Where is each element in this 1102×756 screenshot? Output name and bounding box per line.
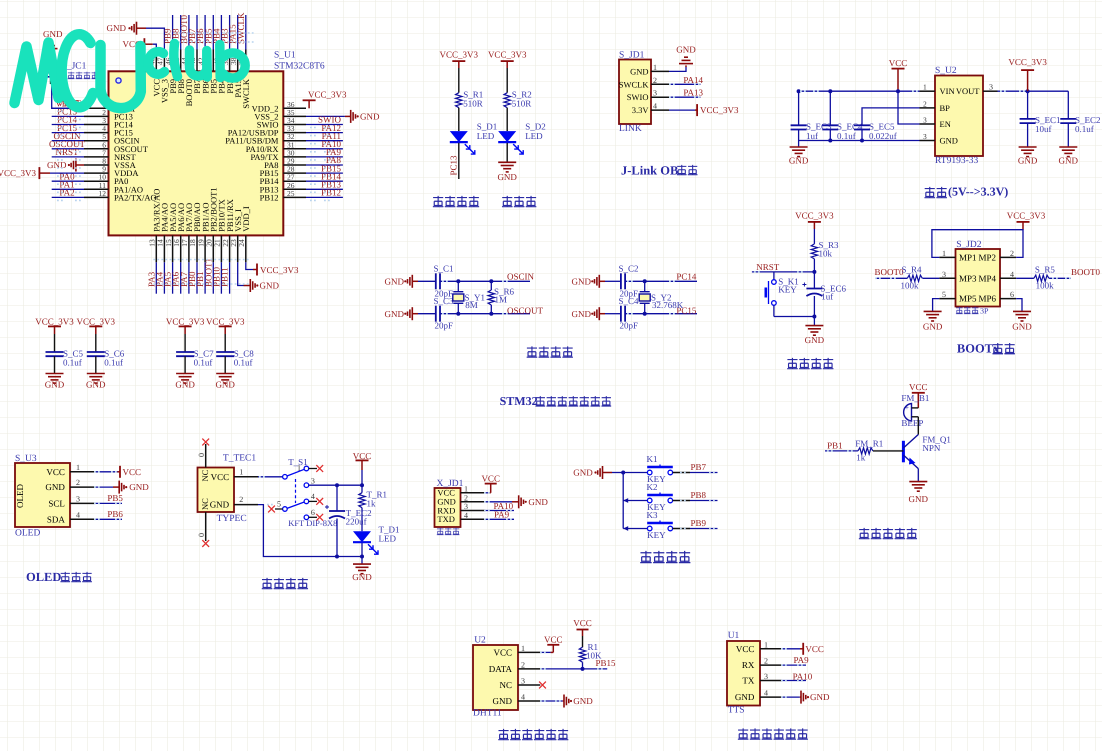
svg-text:NC: NC bbox=[499, 680, 512, 690]
svg-text:S_C1: S_C1 bbox=[434, 263, 454, 273]
svg-text:510R: 510R bbox=[463, 99, 483, 109]
svg-text:OLED: OLED bbox=[26, 570, 61, 584]
svg-text:100k: 100k bbox=[901, 280, 920, 290]
wire X_JD1 GND to ground bbox=[485, 501, 512, 503]
svg-text:TYPEC: TYPEC bbox=[217, 514, 247, 524]
U1 top pin 46 PB9 bbox=[172, 50, 174, 72]
svg-text:2: 2 bbox=[239, 495, 243, 504]
svg-text:GND: GND bbox=[385, 276, 405, 286]
transistor FM_Q1 NPN bbox=[902, 441, 905, 463]
svg-text:OLED: OLED bbox=[15, 484, 25, 508]
svg-text:GND: GND bbox=[573, 468, 593, 478]
svg-text:VCC_3V3: VCC_3V3 bbox=[700, 105, 739, 115]
svg-text:PB12: PB12 bbox=[321, 188, 341, 198]
U1 left pin 5 OSCIN bbox=[84, 140, 109, 142]
svg-text:25: 25 bbox=[287, 189, 295, 198]
ground below power circuit bbox=[361, 557, 363, 565]
S_JD1 pin 1 GND bbox=[651, 70, 669, 72]
svg-text:1uf: 1uf bbox=[821, 291, 833, 301]
svg-text:MP3: MP3 bbox=[959, 273, 977, 283]
U1 top pin 44 BOOT0 bbox=[188, 50, 190, 72]
svg-text:PC13: PC13 bbox=[449, 155, 459, 176]
svg-text:3.3V: 3.3V bbox=[632, 105, 650, 115]
U1 bottom pin 17 PA7/AO bbox=[188, 235, 190, 262]
S_JD1 pin 4 3.3V bbox=[651, 109, 669, 111]
svg-text:GND: GND bbox=[210, 500, 230, 510]
U1 left pin 1 VBAT bbox=[84, 107, 109, 109]
svg-text:PB8: PB8 bbox=[691, 490, 707, 500]
svg-text:3P: 3P bbox=[980, 307, 989, 316]
svg-text:GND: GND bbox=[260, 281, 280, 291]
led T_D1 bbox=[361, 508, 363, 532]
svg-text:S_U2: S_U2 bbox=[935, 66, 957, 76]
svg-text:BOOT0: BOOT0 bbox=[1071, 267, 1100, 277]
wire net PA11 to U1 pin 32 bbox=[306, 140, 343, 142]
wire net PA13 S_JD1 pin3 bbox=[669, 96, 700, 98]
U1 right pin 25 PB12 bbox=[283, 196, 306, 198]
svg-text:GND: GND bbox=[360, 111, 380, 121]
svg-text:2: 2 bbox=[464, 493, 468, 502]
U1 left pin 9 VDDA bbox=[84, 172, 109, 174]
wire 3.3V S_JD1 pin4 to VCC_3V3 bbox=[669, 109, 695, 111]
capacitor S_EC5 0.022uf bbox=[854, 124, 870, 126]
U1 bottom pin 16 PA6/AO bbox=[180, 235, 182, 262]
wire net PA5 from U1 pin 15 bbox=[172, 262, 174, 293]
key K2 bbox=[623, 500, 647, 502]
S_U3 pin 1 VCC bbox=[70, 471, 94, 473]
capacitor S_C1 20pF bbox=[418, 280, 436, 282]
U1 top pin 42 PB6 bbox=[204, 50, 206, 72]
svg-text:VCC: VCC bbox=[805, 644, 824, 654]
svg-text:GND: GND bbox=[572, 276, 592, 286]
svg-text:PB12: PB12 bbox=[260, 192, 279, 202]
U1 top pin 39 PB3 bbox=[229, 50, 231, 72]
svg-text:VIN: VIN bbox=[940, 86, 955, 96]
U1 bottom pin 14 PA4/AO bbox=[163, 235, 165, 262]
wire net PA4 from U1 pin 14 bbox=[163, 262, 165, 293]
svg-text:NC: NC bbox=[200, 469, 210, 481]
svg-text:SWIO: SWIO bbox=[627, 92, 649, 102]
U1 top pin 40 PB4 bbox=[220, 50, 222, 72]
wire EN to VIN rail bbox=[898, 91, 920, 124]
TTS U1 pin 4 GND bbox=[760, 696, 782, 698]
svg-text:0.1uf: 0.1uf bbox=[63, 358, 82, 368]
U1 left pin 3 PC14 bbox=[84, 124, 109, 126]
S_U2 left pin 3 GND bbox=[920, 140, 936, 142]
T_TEC1 bottom pin 0 no-connect bbox=[205, 512, 207, 541]
svg-text:0.1uf: 0.1uf bbox=[837, 131, 856, 141]
svg-text:2: 2 bbox=[76, 478, 80, 487]
svg-text:GND: GND bbox=[86, 379, 106, 389]
T_TEC1 pin 1 VCC bbox=[234, 476, 258, 478]
svg-text:10uf: 10uf bbox=[1035, 124, 1052, 134]
svg-text:LINK: LINK bbox=[619, 124, 642, 134]
svg-text:U1: U1 bbox=[728, 631, 740, 641]
svg-text:1: 1 bbox=[942, 249, 946, 258]
wire PC14 bbox=[625, 280, 697, 282]
key K1 bbox=[623, 472, 647, 474]
wire X_JD1 VCC to power bbox=[485, 492, 488, 494]
svg-text:3: 3 bbox=[942, 270, 946, 279]
svg-text:GND: GND bbox=[385, 309, 405, 319]
led S_D2 bbox=[506, 108, 508, 131]
X_JD1 pin 1 VCC bbox=[461, 492, 486, 494]
wire DATA net PB15 bbox=[540, 668, 607, 670]
wire net PB1 to base bbox=[825, 450, 858, 452]
svg-text:3: 3 bbox=[989, 83, 993, 92]
svg-text:S_JD2: S_JD2 bbox=[956, 240, 982, 250]
svg-text:LED: LED bbox=[379, 534, 397, 544]
S_JD2 pin stubs bbox=[939, 256, 955, 258]
resistor S_R1 510R bbox=[458, 68, 460, 93]
svg-text:510R: 510R bbox=[512, 99, 532, 109]
svg-text:20pF: 20pF bbox=[435, 321, 454, 331]
svg-text:1k: 1k bbox=[856, 452, 866, 462]
svg-text:VCC: VCC bbox=[544, 634, 563, 644]
svg-text:PB7: PB7 bbox=[691, 462, 707, 472]
wire BP to S_EC5 bbox=[862, 108, 920, 125]
wire net PA8 to U1 pin 29 bbox=[306, 164, 343, 166]
svg-text:TX: TX bbox=[742, 676, 754, 686]
svg-text:DATA: DATA bbox=[489, 664, 513, 674]
svg-text:VDD_I: VDD_I bbox=[241, 206, 251, 232]
wire net PB3 to U1 pin 39 bbox=[229, 15, 231, 50]
svg-text:GND: GND bbox=[175, 379, 195, 389]
ground at U1 pin35 VSS_2 bbox=[306, 115, 345, 117]
svg-text:VCC: VCC bbox=[573, 618, 592, 628]
svg-text:MP2: MP2 bbox=[978, 252, 996, 262]
wire net PA9 to U1 pin 30 bbox=[306, 156, 343, 158]
wire net PA2 to U1 pin 12 bbox=[52, 196, 84, 198]
U1 bottom pin 20 PB2/BOOT1 bbox=[212, 235, 214, 262]
U1 right pin 27 PB14 bbox=[283, 180, 306, 182]
resistor S_R3 10k bbox=[813, 229, 815, 244]
svg-text:12: 12 bbox=[99, 189, 107, 198]
U2 pin3 NC no-connect bbox=[539, 682, 546, 689]
svg-text:MP4: MP4 bbox=[978, 273, 996, 283]
svg-text:VCC_3V3: VCC_3V3 bbox=[1007, 211, 1046, 221]
S_U3 pin 2 GND bbox=[70, 486, 94, 488]
S_U2 left pin 1 VIN bbox=[920, 90, 936, 92]
U1 top pin 47 VSS_3 bbox=[163, 50, 165, 72]
capacitor S_EC6 1uf bbox=[813, 272, 815, 289]
svg-text:STM32: STM32 bbox=[500, 394, 538, 408]
svg-text:OSCOUT: OSCOUT bbox=[507, 306, 544, 316]
wire net PB9 to U1 pin 46 bbox=[172, 15, 174, 50]
wire S_JD2 pin5 to ground bbox=[933, 299, 940, 312]
S_JD1 pin 3 SWIO bbox=[651, 96, 669, 98]
resistor S_R6 1M bbox=[490, 281, 492, 290]
wire S_K1 to ground node bbox=[774, 316, 815, 318]
svg-text:1k: 1k bbox=[367, 499, 377, 509]
svg-text:4: 4 bbox=[76, 510, 80, 519]
svg-text:FM_R1: FM_R1 bbox=[855, 439, 883, 449]
wire net PB5 to U1 pin 41 bbox=[212, 15, 214, 50]
U1 left pin 6 OSCOUT bbox=[84, 148, 109, 150]
svg-text:5: 5 bbox=[277, 500, 281, 509]
U1 left pin 10 PA0 bbox=[84, 180, 109, 182]
U1 right pin 31 PA10/RX bbox=[283, 148, 306, 150]
wire net PB11 from U1 pin 22 bbox=[229, 262, 231, 293]
svg-text:0.1uf: 0.1uf bbox=[234, 358, 253, 368]
TTS U1 pin 1 VCC bbox=[760, 648, 782, 650]
wire net PC13 to U1 pin 2 bbox=[52, 115, 84, 117]
svg-text:NC: NC bbox=[200, 498, 210, 510]
U1 bottom pin 19 PB1/AO bbox=[204, 235, 206, 262]
svg-text:1: 1 bbox=[464, 484, 468, 493]
wire VIN rail bbox=[799, 90, 920, 92]
capacitor T_EC2 220uf bbox=[336, 485, 338, 511]
svg-text:VCC: VCC bbox=[211, 472, 230, 482]
svg-text:S_R4: S_R4 bbox=[902, 265, 923, 275]
wire net PC14 to U1 pin 3 bbox=[52, 124, 84, 126]
wire TTS VCC to power bbox=[782, 648, 800, 650]
svg-text:VCC_3V3: VCC_3V3 bbox=[0, 168, 36, 178]
svg-text:1: 1 bbox=[653, 63, 657, 72]
caption crystal circuit bbox=[527, 346, 538, 357]
svg-text:0: 0 bbox=[197, 533, 206, 537]
svg-text:U2: U2 bbox=[474, 636, 486, 646]
wire net PA7 from U1 pin 17 bbox=[188, 262, 190, 293]
svg-text:1: 1 bbox=[521, 644, 525, 653]
svg-text:S_D1: S_D1 bbox=[477, 121, 498, 131]
svg-text:VCC: VCC bbox=[889, 58, 908, 68]
capacitor S_C3 20pF bbox=[418, 313, 436, 315]
svg-text:VCC_3V3: VCC_3V3 bbox=[795, 211, 834, 221]
svg-text:TXD: TXD bbox=[437, 514, 454, 524]
svg-text:4: 4 bbox=[1010, 270, 1014, 279]
svg-text:S_U1: S_U1 bbox=[274, 51, 296, 61]
svg-text:GND: GND bbox=[735, 692, 755, 702]
wire net PB4 to U1 pin 40 bbox=[220, 15, 222, 50]
svg-text:1uf: 1uf bbox=[806, 131, 818, 141]
svg-text:GND: GND bbox=[129, 482, 149, 492]
S_U2 right pin 3 VOUT bbox=[983, 90, 998, 92]
X_JD1 pin 3 RXD bbox=[461, 510, 486, 512]
svg-text:GND: GND bbox=[47, 160, 67, 170]
svg-text:32.768K: 32.768K bbox=[652, 300, 684, 310]
svg-text:0.022uf: 0.022uf bbox=[869, 131, 897, 141]
svg-text:NRST: NRST bbox=[756, 262, 780, 272]
svg-text:J-Link OB: J-Link OB bbox=[621, 164, 678, 178]
wire key common rail bbox=[612, 472, 623, 474]
svg-text:3: 3 bbox=[923, 132, 927, 141]
svg-text:1: 1 bbox=[239, 467, 243, 476]
wire T_TEC1 GND to bottom rail bbox=[258, 505, 362, 557]
capacitor S_C4 20pF bbox=[605, 313, 621, 315]
wire net PA10 to U1 pin 31 bbox=[306, 148, 343, 150]
svg-text:10K: 10K bbox=[586, 651, 602, 661]
svg-text:VCC_3V3: VCC_3V3 bbox=[166, 316, 205, 326]
wire net PB6 SDA bbox=[94, 518, 122, 520]
wire net PB15 to U1 pin 28 bbox=[306, 172, 343, 174]
wire U2 VCC to power bbox=[540, 651, 550, 653]
wire net PB7 to U1 pin 43 bbox=[196, 15, 198, 50]
wire net PB9 bbox=[673, 528, 690, 530]
connector T_TEC1 TYPEC bbox=[198, 468, 235, 513]
svg-text:VCC: VCC bbox=[123, 467, 142, 477]
S_U2 left pin 3 EN bbox=[920, 123, 936, 125]
display header S_U3 OLED bbox=[15, 463, 70, 527]
U1 right pin 30 PA9/TX bbox=[283, 156, 306, 158]
ground at U1 pin8 VSSA bbox=[76, 164, 84, 166]
U1 bottom pin 24 VDD_I bbox=[245, 235, 247, 262]
wire net PB12 to U1 pin 25 bbox=[306, 196, 343, 198]
capacitor S_C2 20pF bbox=[605, 280, 621, 282]
wire S_U2 GND rail bbox=[799, 140, 920, 142]
resistor R1 10K pull-up bbox=[582, 636, 584, 647]
wire net PA1 to U1 pin 11 bbox=[52, 188, 84, 190]
svg-text:GND: GND bbox=[493, 696, 513, 706]
svg-text:NPN: NPN bbox=[922, 443, 941, 453]
label download port bbox=[437, 528, 444, 535]
svg-text:MP6: MP6 bbox=[978, 294, 996, 304]
svg-text:RX: RX bbox=[742, 660, 755, 670]
wire net PA9 RX bbox=[782, 664, 806, 666]
battery D_JC1 coin cell bbox=[50, 49, 52, 64]
U1 right pin 28 PB15 bbox=[283, 172, 306, 174]
S_U3 pin 3 SCL bbox=[70, 502, 94, 504]
svg-text:GND: GND bbox=[573, 696, 593, 706]
svg-text:0.1uf: 0.1uf bbox=[1075, 124, 1094, 134]
wire net PB13 to U1 pin 26 bbox=[306, 188, 343, 190]
wire net PA10 TX bbox=[782, 680, 806, 682]
svg-text:100k: 100k bbox=[1036, 280, 1055, 290]
ground below S_D2 bbox=[506, 143, 508, 162]
ground below S_EC3 bbox=[798, 141, 800, 148]
logo MCUclub bbox=[15, 34, 141, 108]
U1 top pin 45 PB8 bbox=[180, 50, 182, 72]
svg-text:VCC: VCC bbox=[46, 467, 65, 477]
svg-text:OSCIN: OSCIN bbox=[507, 272, 535, 282]
svg-text:3: 3 bbox=[521, 677, 525, 686]
capacitor S_EC1 10uf bbox=[1027, 91, 1029, 119]
svg-text:1: 1 bbox=[764, 640, 768, 649]
U1 bottom pin 15 PA5/AO bbox=[172, 235, 174, 262]
svg-text:VOUT: VOUT bbox=[956, 86, 980, 96]
caption temperature humidity sensor bbox=[498, 729, 509, 740]
svg-text:10k: 10k bbox=[819, 248, 833, 258]
svg-text:6: 6 bbox=[311, 508, 315, 517]
svg-text:4: 4 bbox=[764, 689, 768, 698]
svg-text:S_C2: S_C2 bbox=[619, 263, 639, 273]
key S_K1 reset button bbox=[773, 272, 775, 280]
svg-text:SDA: SDA bbox=[47, 514, 66, 524]
svg-text:GND: GND bbox=[215, 379, 235, 389]
wire VBAT battery to U1 pin1 bbox=[52, 84, 84, 108]
caption key circuit bbox=[640, 551, 652, 563]
wire net PA0 to U1 pin 10 bbox=[52, 180, 84, 182]
svg-text:6: 6 bbox=[1010, 290, 1014, 299]
svg-text:VCC_3V3: VCC_3V3 bbox=[1008, 57, 1047, 67]
resistor S_R5 100k bbox=[1034, 275, 1049, 281]
wire OSCIN bbox=[440, 280, 530, 282]
wire net BOOT0 to U1 pin 44 bbox=[188, 15, 190, 50]
connector X_JD1 download port bbox=[435, 488, 461, 527]
S_U2 left pin 2 BP bbox=[920, 107, 936, 109]
wire buzzer to transistor collector bbox=[917, 417, 919, 435]
svg-text:PA13: PA13 bbox=[683, 88, 703, 98]
wire net BOOT1 from U1 pin 20 bbox=[212, 262, 214, 293]
caption buzzer circuit bbox=[859, 528, 870, 539]
U1 bottom pin 13 PA3/RX/AO bbox=[155, 235, 157, 262]
wire net PA9 TXD bbox=[485, 518, 514, 520]
svg-text:S_D2: S_D2 bbox=[525, 121, 546, 131]
svg-text:KEY: KEY bbox=[778, 284, 797, 294]
svg-text:S_C4: S_C4 bbox=[619, 296, 640, 306]
wire S_U3 GND to ground bbox=[94, 486, 113, 488]
ground below S_EC1 bbox=[1019, 146, 1037, 148]
svg-text:5: 5 bbox=[942, 290, 946, 299]
svg-text:T_TEC1: T_TEC1 bbox=[223, 453, 256, 463]
power VCC_3V3 at U1 pin9 VDDA bbox=[39, 172, 50, 174]
U2 pin 2 DATA bbox=[518, 668, 540, 670]
svg-text:PC14: PC14 bbox=[676, 272, 697, 282]
caption power light bbox=[502, 196, 513, 207]
svg-text:VCC_3V3: VCC_3V3 bbox=[488, 50, 527, 60]
svg-text:SWCLK: SWCLK bbox=[236, 12, 246, 44]
T_TEC1 pin 2 GND bbox=[234, 504, 258, 506]
svg-text:GND: GND bbox=[572, 309, 592, 319]
U1 top pin 38 PA15 bbox=[237, 50, 239, 72]
wire S_JD1 pin1 to ground bbox=[669, 67, 686, 71]
wire net PA12 to U1 pin 33 bbox=[306, 132, 343, 134]
svg-text:OLED: OLED bbox=[15, 529, 40, 539]
wire VDD_I to VCC_3V3 bbox=[246, 262, 253, 269]
wire net PB5 SCL bbox=[94, 502, 122, 504]
jumper S_JD2 3P bbox=[956, 249, 1001, 307]
svg-text:S_U3: S_U3 bbox=[15, 454, 37, 464]
svg-text:TTS: TTS bbox=[728, 705, 745, 715]
wire TTS GND to ground bbox=[782, 696, 800, 698]
U1 left pin 4 PC15 bbox=[84, 132, 109, 134]
wire net PA3 from U1 pin 13 bbox=[155, 262, 157, 293]
svg-text:2: 2 bbox=[923, 99, 927, 108]
svg-text:PB9: PB9 bbox=[691, 518, 707, 528]
label jumper cap 3P bbox=[956, 307, 963, 314]
svg-text:1: 1 bbox=[923, 83, 927, 92]
U1 right pin 35 VSS_2 bbox=[283, 115, 306, 117]
svg-text:4: 4 bbox=[521, 693, 525, 702]
svg-text:PA14: PA14 bbox=[683, 75, 703, 85]
switch T_S1 dashed link bbox=[295, 479, 297, 503]
svg-text:3: 3 bbox=[76, 494, 80, 503]
svg-text:VCC: VCC bbox=[493, 647, 512, 657]
wire S_JD2 pin6 to ground bbox=[1016, 299, 1022, 312]
led S_D1 bbox=[458, 108, 460, 131]
wire VCC_3V3 loop to pins 1 and 2 bbox=[932, 230, 1023, 258]
wire S_U3 VCC to power bbox=[94, 471, 117, 473]
wire net PC15 to U1 pin 4 bbox=[52, 132, 84, 134]
svg-text:PB1: PB1 bbox=[827, 440, 843, 450]
switch T_S1 pins 4 5 6 bbox=[304, 499, 309, 504]
svg-text:220uf: 220uf bbox=[346, 517, 367, 527]
caption power circuit bbox=[262, 578, 273, 589]
svg-text:+: + bbox=[905, 404, 909, 412]
U1 left pin 12 PA2/TX/AO bbox=[84, 196, 109, 198]
svg-text:KEY: KEY bbox=[647, 530, 666, 540]
U1 right pin 33 PA12/USB/DP bbox=[283, 132, 306, 134]
wire net PA10 RXD bbox=[485, 510, 514, 512]
ground below S_EC2 bbox=[1059, 146, 1077, 148]
wire net VBAT to U1 pin 1 bbox=[52, 107, 84, 109]
svg-text:LED: LED bbox=[477, 131, 495, 141]
wire net PB7 bbox=[673, 472, 690, 474]
resistor S_R4 100k bbox=[907, 275, 922, 281]
svg-text:3: 3 bbox=[764, 672, 768, 681]
wire net SWIO to U1 pin 34 bbox=[306, 124, 343, 126]
svg-text:GND: GND bbox=[107, 23, 127, 33]
